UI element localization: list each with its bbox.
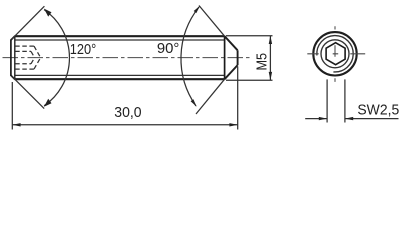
M5 extension line bottom [226,79,273,81]
90deg arc arrowhead top [194,6,200,13]
chamfer bottom-left [11,75,15,79]
cone tip flat [237,50,239,65]
screw body outline bottom [15,78,225,80]
30,0 dimension line [12,124,237,126]
SW dimension line left segment [305,118,327,120]
svg-text:M5: M5 [255,53,271,71]
30,0 arrow right [229,123,237,126]
cone point bottom [225,65,238,79]
left end face [10,40,12,77]
hex socket hidden lines (dashed) [15,46,40,69]
120deg extension line lower (L2) [12,76,45,109]
chamfer end vertical [14,36,16,79]
thread minor line top [15,39,224,41]
socket inner dashed bottom [15,63,31,65]
screw body outline top [15,35,225,37]
90deg dimension arc [181,7,199,106]
SW arrow left [319,117,327,120]
120deg arc arrowhead bottom [44,99,52,107]
M5 arrow bottom [269,72,272,80]
socket outer dashed top [15,45,34,47]
svg-text:SW2,5: SW2,5 [357,101,399,118]
SW arrow right [345,117,353,120]
SW extension line right [344,79,346,122]
chamfer top-left [11,36,15,40]
socket drill cone bottom [34,58,41,70]
cone point top [225,36,238,50]
thread minor circle (3/4 arc, gap lower-left) [317,36,353,72]
svg-text:90°: 90° [157,41,180,57]
SW extension line left [326,79,328,122]
end view centerline horizontal [307,53,365,55]
socket inner dashed top [15,50,31,52]
centerline of side view [3,57,252,59]
socket inner cone bottom [31,58,35,64]
cone base vertical [224,36,226,79]
hex socket [326,43,345,65]
socket chamfer circle [321,40,349,68]
M5 extension line top [226,35,273,37]
outer circle (major dia) [313,32,356,75]
90deg arc arrowhead bottom [191,99,197,107]
socket inner cone top [31,51,35,57]
30,0 extension line right [237,66,239,129]
90deg extension line lower (L4) [196,79,225,114]
end view centerline vertical [334,26,336,82]
M5 arrow top [269,36,272,44]
120deg dimension arc [44,10,69,106]
SW dimension line right segment [345,118,399,120]
120deg extension line upper (L1) [12,6,45,39]
socket drill cone top [34,46,41,58]
M5 dimension line [269,36,271,80]
svg-text:120°: 120° [70,42,97,58]
30,0 arrow left [12,123,20,126]
socket outer dashed bottom [15,68,34,70]
thread minor line bottom [15,74,224,76]
svg-text:30,0: 30,0 [114,105,141,121]
120deg arc arrowhead top [44,9,52,17]
30,0 extension line left [11,82,13,130]
90deg extension line upper (L3) [199,6,225,37]
